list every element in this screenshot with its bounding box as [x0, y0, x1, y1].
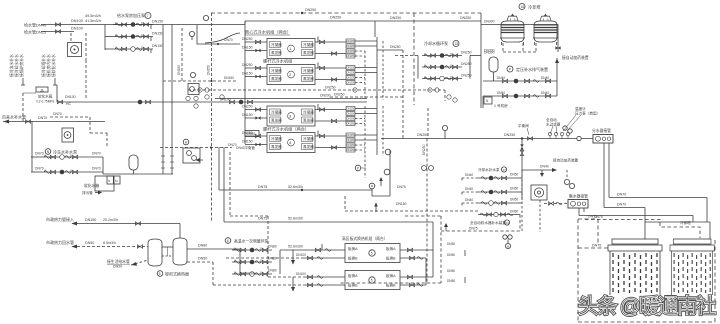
- wire: rows right riser: [279, 250, 281, 274]
- wire: arrow left at y160: [196, 159, 204, 161]
- svg-text:温度计: 温度计: [575, 106, 586, 111]
- svg-text:DN100: DN100: [71, 27, 83, 31]
- svg-text:DN50: DN50: [247, 132, 256, 136]
- svg-text:DN150: DN150: [242, 140, 253, 144]
- label: pressurization unit: [507, 66, 513, 72]
- svg-text:DN50: DN50: [447, 253, 455, 257]
- wire: dashed drain left: [22, 93, 24, 121]
- svg-text:DN250: DN250: [504, 133, 515, 137]
- svg-text:冷却塔: 冷却塔: [680, 220, 691, 225]
- valve cluster left of HX1: [312, 249, 345, 251]
- manifold group 4: [346, 133, 356, 152]
- wire: left drop with small box: [482, 96, 484, 108]
- svg-text:板换A: 板换A: [348, 273, 358, 278]
- wire: left supply riser: [244, 21, 246, 144]
- chiller3 left stubs: [245, 109, 267, 111]
- svg-text:N: N: [108, 179, 110, 183]
- svg-text:DN40平衡管: DN40平衡管: [236, 145, 255, 150]
- tank 2: [173, 238, 187, 265]
- svg-text:5: 5: [159, 272, 161, 276]
- pump row 3: [113, 47, 153, 52]
- svg-text:平衡阀: 平衡阀: [518, 123, 529, 128]
- chiller4 right stubs: [315, 135, 346, 137]
- valve on line 1: [55, 23, 60, 27]
- wire: tank links: [162, 246, 173, 248]
- wire: manifold to right riser: [355, 41, 377, 73]
- wire: top line y222: [224, 221, 433, 223]
- wire: long return line: [219, 189, 372, 191]
- wire: heating supply line: [72, 223, 180, 225]
- svg-text:5: 5: [371, 279, 373, 283]
- plate HX 1: [345, 244, 400, 263]
- label box DN: [245, 131, 259, 137]
- svg-text:6: 6: [227, 239, 229, 243]
- svg-text:0.2-0.75MPa: 0.2-0.75MPa: [36, 100, 54, 104]
- svg-text:DN100: DN100: [296, 253, 306, 257]
- gauges on trunk: [548, 132, 551, 138]
- flow meter circle: [577, 136, 581, 140]
- chiller 4: [267, 133, 315, 153]
- svg-text:板换A: 板换A: [348, 246, 358, 251]
- wire: to HX supply: [280, 249, 312, 251]
- wire: top solid supply main: [163, 24, 245, 26]
- svg-text:接冷却水补水: 接冷却水补水: [14, 54, 19, 77]
- wire: down from 分水器: [603, 143, 605, 208]
- svg-text:冷冻水补水泵: 冷冻水补水泵: [53, 149, 77, 155]
- dosing pump box: [68, 43, 82, 57]
- wire: right tower drop: [557, 25, 559, 53]
- svg-text:HC: HC: [66, 102, 71, 106]
- svg-text:DN80: DN80: [268, 245, 277, 249]
- cooling tower 2: [533, 14, 558, 45]
- label: cooling tower: [519, 4, 525, 10]
- side box w circles (bypass processor): [183, 148, 200, 163]
- svg-text:DN70: DN70: [38, 116, 47, 120]
- cooling pump row 1: [422, 53, 462, 58]
- svg-text:市政热力管接入: 市政热力管接入: [46, 216, 74, 222]
- wire: pump row verticals: [417, 56, 419, 79]
- svg-text:DN150: DN150: [224, 76, 234, 80]
- wire: dashed region border: [211, 13, 213, 147]
- svg-text:DN75: DN75: [258, 217, 267, 221]
- wire: unit top headers link: [644, 222, 646, 240]
- svg-text:DN40: DN40: [465, 187, 473, 191]
- svg-text:DN100: DN100: [65, 95, 76, 99]
- svg-text:压力表（典型）: 压力表（典型）: [575, 111, 600, 116]
- wire: top dashed condenser return main: [211, 12, 481, 14]
- wire: dashed v x211: [211, 148, 213, 223]
- svg-text:DN150: DN150: [85, 218, 96, 222]
- gauge P: [355, 165, 361, 171]
- svg-text:DN40: DN40: [497, 91, 505, 95]
- svg-text:20.2m3/h: 20.2m3/h: [103, 218, 118, 222]
- svg-text:高温水一次侧循环泵: 高温水一次侧循环泵: [234, 239, 268, 244]
- svg-text:DN70: DN70: [92, 152, 101, 156]
- svg-text:5: 5: [371, 252, 373, 256]
- wire: dashed link to roof towers: [441, 230, 520, 232]
- wire: domestic feed: [131, 260, 148, 265]
- svg-text:接自动加药装置: 接自动加药装置: [553, 158, 579, 163]
- wire: riser for make-up pumps: [31, 122, 33, 173]
- wire: return risers x219 x224: [218, 147, 220, 190]
- gauge P: [189, 31, 194, 36]
- valves on pressurization piping: [502, 79, 507, 83]
- wire: solid v x390: [389, 150, 391, 196]
- pump row A: [42, 155, 82, 160]
- wire: tank2 outlet dashed: [187, 261, 213, 263]
- svg-text:DN100: DN100: [71, 19, 83, 23]
- row 1: [478, 177, 518, 179]
- expansion vessel: [129, 155, 138, 170]
- wire: dashed h at y147: [160, 147, 232, 149]
- svg-text:自来水补水管: 自来水补水管: [2, 114, 26, 120]
- svg-text:DN250: DN250: [242, 37, 253, 41]
- svg-text:DN300: DN300: [484, 49, 495, 53]
- closed tower unit 1: [608, 239, 662, 295]
- svg-text:DN250: DN250: [461, 51, 472, 55]
- svg-text:49.5m3/h: 49.5m3/h: [85, 14, 101, 18]
- wire: right risers: [376, 37, 378, 155]
- wire: pressurization piping: [483, 80, 557, 82]
- svg-text:DN150: DN150: [242, 72, 253, 76]
- svg-text:DN50: DN50: [113, 265, 122, 269]
- make-up pump rows: [478, 167, 540, 232]
- wire: dashed link to 集水器: [544, 203, 568, 205]
- wire: dashed v x230 + h y216: [229, 152, 231, 216]
- svg-text:DN70: DN70: [35, 152, 44, 156]
- svg-text:DN80: DN80: [198, 244, 207, 248]
- svg-text:DN100: DN100: [220, 98, 231, 102]
- svg-text:定压补水排气装置: 定压补水排气装置: [516, 66, 548, 72]
- cooling pump row 3: [422, 76, 462, 81]
- wire: dashed returns below chillers: [188, 89, 445, 91]
- svg-text:DN150: DN150: [152, 20, 163, 24]
- wire: vertical main to softener tank: [162, 25, 164, 175]
- chiller1 right stubs: [315, 41, 346, 43]
- wire: heating return line dashed: [72, 246, 148, 248]
- svg-text:DN50: DN50: [447, 269, 455, 273]
- svg-text:接生活给水管: 接生活给水管: [107, 259, 130, 264]
- wire: dashed feeders on left of HX2: [268, 216, 303, 277]
- wire: riser to pressure pumps: [104, 25, 106, 51]
- gauges pair on x427: [422, 166, 427, 171]
- wire: tank2 outlet solid: [187, 248, 240, 250]
- up arrows: [380, 178, 382, 186]
- wire: drop to tank2: [179, 224, 181, 240]
- HX right connections: [400, 249, 433, 251]
- wire: to tower feed: [470, 55, 481, 57]
- gauge circles: [385, 149, 391, 155]
- wire: dashed bypass y81: [163, 80, 237, 82]
- svg-text:DN150: DN150: [152, 32, 163, 36]
- chiller1 left stubs: [245, 41, 267, 43]
- wire: verticals near x172/x182: [171, 25, 173, 175]
- svg-text:52.6m3/h: 52.6m3/h: [288, 217, 303, 221]
- gauge T: [203, 15, 208, 20]
- wire: manifold3/4 to risers: [355, 109, 377, 141]
- manifold group 1: [346, 39, 356, 58]
- side-stream processor box: [531, 185, 547, 200]
- svg-text:DN250: DN250: [460, 16, 471, 20]
- svg-text:DN50: DN50: [510, 198, 518, 202]
- wire: rows right dashed riser: [521, 170, 523, 232]
- svg-text:14: 14: [506, 221, 510, 225]
- svg-text:冷却水循环泵: 冷却水循环泵: [424, 40, 448, 46]
- svg-text:市政热力回水管: 市政热力回水管: [46, 239, 74, 245]
- svg-text:41.5m3/h: 41.5m3/h: [85, 19, 101, 23]
- svg-text:DN70: DN70: [53, 112, 62, 116]
- softener tank symbol: [36, 87, 48, 92]
- svg-text:DN200: DN200: [320, 94, 331, 98]
- svg-text:DN40: DN40: [497, 76, 505, 80]
- svg-text:DN75: DN75: [592, 244, 601, 248]
- wire: to softening tank line: [103, 173, 173, 175]
- svg-text:DN150: DN150: [396, 202, 407, 206]
- plate HX 2: [345, 271, 400, 290]
- pump row 2: [232, 260, 272, 265]
- svg-text:DN250: DN250: [207, 65, 211, 75]
- svg-text:水过滤器: 水过滤器: [546, 122, 561, 127]
- svg-text:DN250: DN250: [334, 93, 345, 97]
- wire: down from 集水器: [578, 208, 580, 216]
- valve on line 2: [55, 30, 60, 34]
- svg-text:DN70: DN70: [35, 167, 44, 171]
- HX1 row2 left dashed: [226, 257, 303, 259]
- svg-text:DN250: DN250: [422, 144, 426, 155]
- wire: riser to dosing: [556, 58, 558, 96]
- wire: rows join riser: [102, 157, 104, 174]
- svg-text:给水管DN40: 给水管DN40: [24, 22, 47, 28]
- svg-text:52.6m3/h: 52.6m3/h: [240, 272, 255, 276]
- svg-text:DN50: DN50: [198, 257, 207, 261]
- gauge T: [190, 72, 195, 77]
- svg-text:DN70: DN70: [617, 193, 626, 197]
- wire: make-up line 2: [41, 31, 74, 33]
- wire: city water line: [3, 121, 105, 123]
- svg-text:DN250: DN250: [242, 63, 253, 67]
- make-up pump box: [62, 128, 74, 142]
- wire: tower supply header: [481, 24, 558, 26]
- svg-text:52.6m3/h: 52.6m3/h: [288, 245, 303, 249]
- svg-text:DN70: DN70: [92, 167, 101, 171]
- svg-text:接冷却塔补水: 接冷却塔补水: [41, 54, 46, 77]
- svg-text:容积式换热器: 容积式换热器: [165, 271, 189, 277]
- svg-text:P: P: [357, 167, 359, 171]
- junction: [521, 137, 523, 139]
- pump row 1: [232, 248, 272, 253]
- svg-text:DN70: DN70: [224, 38, 233, 42]
- wire: dashed drop to dosing pump box: [71, 33, 86, 100]
- svg-text:16: 16: [521, 5, 525, 9]
- chiller 1: [267, 39, 315, 59]
- HX drains: [291, 250, 465, 292]
- watermark: [578, 295, 716, 318]
- softener boxes: [95, 176, 114, 191]
- wire: return trunk (dashed) from right: [427, 108, 429, 139]
- cooling pump row 2: [422, 65, 462, 70]
- svg-text:8.5m3/h: 8.5m3/h: [103, 241, 116, 245]
- svg-text:DN250: DN250: [417, 133, 428, 137]
- svg-text:1 号机房: 1 号机房: [494, 103, 508, 108]
- make-up pump dashed box: [50, 117, 107, 148]
- pump circle: [369, 183, 375, 189]
- svg-text:接软化水补水: 接软化水补水: [51, 54, 56, 77]
- svg-text:螺杆式冷水机组（两台）: 螺杆式冷水机组（两台）: [263, 126, 309, 133]
- svg-text:DN75: DN75: [397, 185, 406, 189]
- wire: dashed v x365: [364, 155, 366, 178]
- wire: bypass drop from trunk: [521, 139, 523, 201]
- svg-text:板换B: 板换B: [348, 256, 358, 261]
- manifold group 2: [346, 66, 356, 85]
- svg-text:DN80: DN80: [268, 269, 277, 273]
- gauges below: [205, 95, 209, 99]
- wire: dashed roof return: [585, 220, 700, 239]
- pump row 2: [113, 34, 153, 39]
- svg-text:DN250: DN250: [390, 16, 401, 20]
- wire: dashed long vertical x427: [426, 139, 428, 284]
- svg-text:DN75: DN75: [258, 185, 267, 189]
- svg-text:全自动软水器补水装置: 全自动软水器补水装置: [470, 220, 506, 225]
- svg-text:离心式冷水机组（两台）: 离心式冷水机组（两台）: [245, 29, 291, 36]
- pump row 1: [113, 22, 153, 27]
- svg-text:软化水箱: 软化水箱: [38, 94, 53, 99]
- manifold group 3: [346, 107, 356, 126]
- svg-text:DN50: DN50: [510, 187, 518, 191]
- svg-text:板换A: 板换A: [386, 246, 396, 251]
- softener piping row: [478, 214, 520, 216]
- svg-text:DN150: DN150: [242, 113, 253, 117]
- chiller 2: [267, 65, 315, 85]
- svg-text:DN100: DN100: [296, 272, 306, 276]
- wire: softener outlet riser: [56, 85, 58, 102]
- wire: leaders under label columns: [21, 78, 57, 85]
- chiller2 left stubs: [245, 67, 267, 69]
- dashed enclosure right part: [340, 216, 441, 283]
- wire: chilled water supply trunk: [381, 138, 593, 140]
- svg-text:冷却塔: 冷却塔: [528, 4, 541, 11]
- svg-text:接冷冻水补水: 接冷冻水补水: [9, 54, 14, 77]
- svg-text:52.6m3/h: 52.6m3/h: [288, 185, 303, 189]
- wire: dosing branch: [522, 169, 556, 171]
- svg-text:排污管: 排污管: [82, 190, 93, 195]
- svg-text:DN70: DN70: [617, 203, 626, 207]
- chiller4 left stubs: [245, 135, 267, 137]
- svg-text:DN250: DN250: [177, 65, 181, 75]
- box with pipe curve: [197, 25, 240, 44]
- svg-text:集水器接管: 集水器接管: [569, 194, 588, 199]
- wire: condenser return riser to towers: [480, 13, 482, 108]
- left vertical pipe labels group 1: [9, 54, 56, 77]
- svg-text:17: 17: [503, 168, 507, 172]
- svg-text:DN250: DN250: [330, 16, 341, 20]
- wire: tower basin drains dashed: [503, 43, 536, 52]
- HX2 rows left: [303, 276, 345, 278]
- gauges between trunk area: [563, 126, 567, 130]
- svg-text:DN75: DN75: [469, 227, 478, 231]
- cooling make-up stubs: [462, 178, 478, 207]
- wire: dashed feed to cooling pumps: [395, 55, 418, 57]
- label: circ pump: [225, 238, 231, 244]
- wire: to right units: [609, 197, 707, 199]
- small meter box: [188, 84, 199, 95]
- svg-text:给水泵房加压泵: 给水泵房加压泵: [117, 12, 145, 18]
- svg-text:DN50: DN50: [447, 242, 455, 246]
- wire: make-up line 1: [41, 24, 163, 26]
- svg-text:DN75: DN75: [588, 215, 597, 219]
- svg-text:7: 7: [147, 14, 149, 18]
- label: chilled water make-up pump: [45, 149, 51, 155]
- row 3: [478, 202, 518, 204]
- secondary pump cluster below chillers: [345, 149, 478, 212]
- tank 1: [148, 239, 162, 266]
- svg-text:DN40: DN40: [465, 173, 473, 177]
- svg-text:DN50: DN50: [510, 210, 518, 214]
- svg-text:软化水箱: 软化水箱: [84, 183, 99, 188]
- chiller 3: [267, 106, 315, 126]
- gauges right area: [564, 179, 569, 184]
- svg-text:高区板式换热机组（两台）: 高区板式换热机组（两台）: [342, 236, 388, 241]
- wire: dashed corridor: [344, 196, 346, 211]
- svg-text:板换B: 板换B: [386, 256, 396, 261]
- svg-text:板换A: 板换A: [386, 273, 396, 278]
- svg-text:接锅炉房补水: 接锅炉房补水: [19, 54, 24, 77]
- pump row B: [42, 170, 82, 175]
- row 2: [478, 191, 518, 193]
- svg-text:DN250: DN250: [305, 8, 316, 12]
- expansion vessel: [489, 57, 498, 72]
- svg-text:DN80: DN80: [268, 257, 277, 261]
- svg-text:分水器接管: 分水器接管: [592, 128, 611, 133]
- cooling tower 1: [500, 14, 525, 45]
- svg-text:给水管DN25: 给水管DN25: [24, 29, 47, 35]
- svg-text:DN150: DN150: [242, 46, 253, 50]
- svg-text:DN300: DN300: [484, 20, 495, 24]
- svg-text:DN50: DN50: [510, 173, 518, 177]
- svg-text:冷却水补水泵: 冷却水补水泵: [478, 167, 500, 172]
- svg-text:DN40: DN40: [540, 165, 549, 169]
- svg-text:15: 15: [455, 42, 459, 46]
- wire: softener outlet: [57, 101, 367, 103]
- svg-text:DN250: DN250: [242, 105, 253, 109]
- wire: row returns: [150, 25, 152, 54]
- wire: dashed enclosure left edge: [578, 219, 715, 322]
- wire: right risers: [432, 222, 434, 250]
- svg-text:接机房内补水: 接机房内补水: [46, 54, 51, 77]
- svg-text:DN40: DN40: [465, 198, 473, 202]
- softener symbols: [503, 235, 507, 239]
- svg-text:DN50: DN50: [85, 241, 94, 245]
- svg-text:螺杆式冷水机组: 螺杆式冷水机组: [263, 58, 292, 65]
- svg-text:DN250: DN250: [325, 86, 336, 90]
- svg-text:DN50: DN50: [447, 279, 455, 283]
- svg-text:DN150: DN150: [152, 44, 163, 48]
- svg-text:头条 @暖通南社: 头条 @暖通南社: [578, 295, 716, 318]
- svg-text:接自动加药装置: 接自动加药装置: [562, 55, 589, 60]
- pump row 3: [232, 272, 272, 277]
- chiller2 right stubs: [315, 67, 346, 69]
- svg-text:DN250: DN250: [390, 45, 401, 49]
- svg-text:全自动: 全自动: [546, 117, 557, 122]
- chiller3 right stubs: [315, 109, 346, 111]
- label: volumetric HX: [157, 271, 163, 277]
- closed tower unit 2: [670, 239, 714, 295]
